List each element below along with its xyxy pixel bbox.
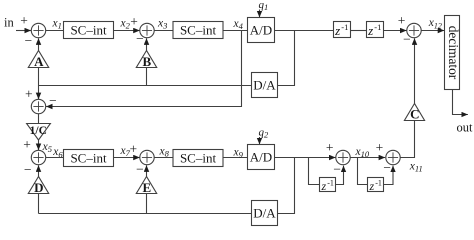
svg-text:SC–int: SC–int bbox=[70, 23, 107, 38]
svg-text:SC–int: SC–int bbox=[180, 151, 217, 166]
wire gain A to S1 bbox=[38, 38, 40, 50]
summer S3 bbox=[31, 99, 45, 113]
svg-text:x4: x4 bbox=[233, 18, 244, 31]
gain 1/C bbox=[27, 124, 51, 141]
svg-text:-1: -1 bbox=[327, 178, 334, 187]
wire U4 feedback to gains A and B bbox=[39, 85, 252, 87]
A/D U7 bbox=[248, 145, 275, 170]
wire Z1 to delay Z2 bbox=[351, 30, 367, 32]
summer S4 bbox=[31, 150, 45, 164]
wire S7 up through gain C bbox=[400, 121, 414, 158]
svg-text:x9: x9 bbox=[233, 147, 244, 160]
wire Z3 to S6 minus input bbox=[336, 166, 344, 185]
A/D U3 bbox=[248, 18, 275, 43]
svg-text:+: + bbox=[130, 14, 138, 29]
SC-int U2 bbox=[173, 22, 223, 39]
svg-text:x11: x11 bbox=[409, 160, 423, 173]
summer S8 bbox=[407, 23, 421, 37]
svg-text:SC–int: SC–int bbox=[180, 23, 217, 38]
wire U8 feedback to gains D and E bbox=[39, 213, 252, 215]
wire decimator to out bbox=[453, 90, 468, 115]
wire gain C to S8 minus input bbox=[414, 38, 416, 103]
wire U7 branch down to D/A U8 bbox=[278, 158, 295, 214]
wire gain B to S2 bbox=[146, 38, 148, 50]
wire feedback up to gain E bbox=[146, 194, 148, 214]
svg-text:x8: x8 bbox=[159, 146, 170, 159]
wire S3 to gain 1/C bbox=[38, 114, 40, 124]
svg-text:−: − bbox=[24, 33, 32, 48]
svg-text:+: + bbox=[326, 140, 334, 155]
wire U7 branch down to delay Z3 bbox=[309, 158, 320, 185]
delay Z2 bbox=[367, 22, 384, 39]
wire U1 to summer S2 bbox=[114, 30, 140, 32]
svg-text:C: C bbox=[410, 107, 419, 122]
wire U5 to summer S5 bbox=[114, 157, 140, 159]
svg-text:+: + bbox=[20, 13, 28, 28]
svg-text:E: E bbox=[142, 180, 151, 195]
svg-text:A/D: A/D bbox=[250, 23, 272, 38]
svg-text:in: in bbox=[4, 15, 14, 29]
svg-text:D/A: D/A bbox=[253, 205, 276, 220]
wire feedback up to gain D bbox=[38, 194, 40, 214]
wire feedback down to summer S3 bbox=[38, 86, 40, 100]
gain E bbox=[136, 177, 156, 196]
gain D bbox=[28, 177, 48, 196]
svg-text:D/A: D/A bbox=[253, 77, 276, 92]
delay Z4 bbox=[368, 178, 384, 193]
svg-text:+: + bbox=[129, 142, 137, 157]
wire gain D to S4 bbox=[38, 165, 40, 176]
D/A U8 bbox=[252, 201, 278, 226]
wire S1 to SC-int U1 bbox=[46, 30, 64, 32]
svg-text:B: B bbox=[142, 54, 151, 69]
svg-text:−: − bbox=[24, 162, 32, 177]
wire U6 to A/D U7 bbox=[223, 157, 248, 159]
wire U7 to summer S6 bbox=[275, 157, 336, 159]
summer S5 bbox=[140, 150, 154, 164]
wire Z2 to summer S8 bbox=[384, 30, 407, 32]
wire feedback up to gain B bbox=[146, 68, 148, 86]
delay Z3 bbox=[320, 178, 336, 193]
svg-text:-1: -1 bbox=[341, 22, 348, 32]
wire U2 to A/D U3 bbox=[223, 30, 248, 32]
wire U3 to delay Z1 bbox=[275, 30, 334, 32]
decimator U9 bbox=[445, 16, 462, 90]
svg-text:1/C: 1/C bbox=[30, 125, 47, 137]
wire in to summer S1 bbox=[16, 30, 31, 32]
wire q1 into A/D U3 bbox=[259, 10, 261, 18]
svg-text:x12: x12 bbox=[428, 17, 442, 30]
wire feedback up to gain A bbox=[38, 68, 40, 86]
svg-text:q2: q2 bbox=[259, 126, 270, 139]
SC-int U1 bbox=[64, 22, 114, 39]
gain B bbox=[136, 51, 156, 70]
svg-text:+: + bbox=[25, 87, 33, 102]
svg-text:+: + bbox=[376, 140, 384, 155]
wire x4 branch down to S3 bbox=[46, 31, 242, 107]
svg-text:+: + bbox=[23, 137, 31, 152]
wire Z4 to S7 minus input bbox=[384, 166, 394, 185]
svg-text:-1: -1 bbox=[375, 178, 382, 187]
wire S4 to SC-int U5 bbox=[46, 157, 64, 159]
svg-text:A/D: A/D bbox=[250, 150, 272, 165]
wire gain E to S5 bbox=[146, 165, 148, 176]
svg-text:z: z bbox=[334, 23, 340, 38]
wire U3 output branch down to D/A U4 bbox=[278, 31, 295, 86]
wire S2 to SC-int U2 bbox=[154, 30, 173, 32]
svg-text:−: − bbox=[49, 93, 57, 108]
summer S6 bbox=[336, 150, 350, 164]
wire gain 1/C to summer S4 bbox=[38, 140, 40, 150]
svg-text:x3: x3 bbox=[157, 18, 167, 31]
svg-text:x2: x2 bbox=[120, 18, 131, 31]
wire S5 to SC-int U6 bbox=[154, 157, 173, 159]
svg-text:z: z bbox=[367, 23, 373, 38]
summer S1 bbox=[31, 23, 45, 37]
wire q2 into A/D U7 bbox=[259, 137, 261, 144]
svg-text:out: out bbox=[457, 121, 474, 135]
svg-text:z: z bbox=[369, 179, 375, 193]
svg-text:A: A bbox=[34, 54, 44, 69]
summer S2 bbox=[140, 23, 154, 37]
svg-text:SC–int: SC–int bbox=[70, 151, 107, 166]
svg-text:+: + bbox=[398, 13, 406, 28]
svg-text:-1: -1 bbox=[374, 22, 381, 32]
summer S7 bbox=[386, 150, 400, 164]
D/A U4 bbox=[252, 73, 278, 98]
svg-text:D: D bbox=[34, 180, 43, 195]
wire S8 to decimator bbox=[421, 30, 444, 32]
SC-int U5 bbox=[64, 150, 114, 167]
delay Z1 bbox=[334, 22, 351, 39]
wire S6 to summer S7 bbox=[350, 157, 385, 159]
wire x10 branch down to delay Z4 bbox=[358, 158, 368, 185]
svg-text:z: z bbox=[321, 179, 327, 193]
gain C bbox=[404, 104, 424, 122]
gain A bbox=[28, 51, 48, 70]
svg-text:decimator: decimator bbox=[446, 26, 461, 80]
svg-text:x1: x1 bbox=[52, 18, 62, 31]
SC-int U6 bbox=[173, 150, 223, 167]
